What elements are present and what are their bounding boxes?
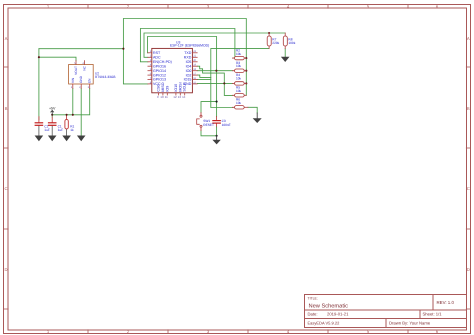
svg-text:C: C (4, 186, 7, 191)
svg-text:EN: EN (88, 78, 92, 83)
svg-text:GPIO14: GPIO14 (153, 69, 166, 73)
U3 left pin stubs (148, 53, 152, 84)
svg-text:1uF: 1uF (58, 128, 64, 132)
svg-text:ESP-12F (ESP8266MOD): ESP-12F (ESP8266MOD) (170, 44, 209, 48)
U2 top pin stubs (76, 61, 84, 65)
svg-text:MISO: MISO (161, 82, 165, 91)
U3 bottom pin stubs (159, 93, 185, 95)
svg-text:MOSI: MOSI (178, 82, 182, 91)
svg-text:13: 13 (178, 95, 182, 99)
resistor R6 (232, 98, 248, 109)
svg-text:A: A (5, 36, 8, 41)
svg-text:+5V: +5V (49, 106, 56, 110)
wire C1 bottom stem (51, 125, 53, 135)
svg-text:10k: 10k (236, 52, 242, 56)
svg-text:B: B (467, 106, 470, 111)
wire GND pin to R4 (197, 82, 233, 84)
svg-text:CS0: CS0 (157, 85, 161, 92)
wire R1 bottom stem (66, 129, 68, 136)
junction node +5V (51, 114, 53, 116)
frame ticks top (88, 5, 408, 9)
junction node 3.3V tee (122, 48, 124, 50)
junction node R1 top (66, 114, 68, 116)
svg-text:GND: GND (79, 75, 83, 83)
svg-text:NC: NC (82, 65, 86, 70)
ground under U2 GND (77, 136, 86, 142)
svg-text:220k: 220k (272, 41, 279, 45)
wire +5V rail (52, 88, 89, 114)
wire R7 bottom run (211, 49, 269, 108)
resistor R5 (232, 86, 246, 97)
U3 bottom pin numbers (157, 95, 186, 99)
wire IO15 stub (197, 79, 211, 81)
U2 pin numbers (71, 62, 90, 89)
svg-text:TXD: TXD (184, 51, 192, 55)
svg-text:GPIO12: GPIO12 (153, 73, 166, 77)
U3 left pin numbers (150, 50, 152, 84)
svg-text:IO0: IO0 (186, 69, 192, 73)
svg-text:B: B (5, 106, 8, 111)
wire VOUT to 3.3V (39, 57, 76, 61)
wire C1 top stub (51, 115, 53, 117)
frame ticks right (466, 67, 470, 309)
junction node R7 top (268, 32, 270, 34)
regulator U2 body (69, 65, 116, 85)
resistor R2 (232, 48, 246, 59)
wire wrap RST (148, 37, 217, 102)
svg-text:11: 11 (165, 95, 168, 99)
svg-text:A: A (467, 36, 470, 41)
junction node R2 rail (245, 57, 247, 59)
junction node R4 tap (223, 82, 225, 84)
power +5V (49, 106, 56, 114)
svg-text:14: 14 (182, 95, 186, 99)
wire wrap ADC (144, 33, 285, 57)
svg-text:GPIO16: GPIO16 (153, 64, 166, 68)
svg-text:RST: RST (153, 51, 161, 55)
svg-text:GPIO13: GPIO13 (153, 78, 166, 82)
junction node R3 tap (215, 70, 217, 72)
svg-text:10k: 10k (236, 101, 242, 105)
wire R8 to ground (284, 49, 286, 57)
svg-text:12: 12 (173, 95, 177, 99)
svg-text:EasyEDA V5.9.22: EasyEDA V5.9.22 (308, 321, 341, 326)
frame ticks left (4, 67, 9, 309)
resistor R1 (65, 119, 75, 131)
svg-text:IO9: IO9 (165, 86, 169, 92)
wire VIN drop (72, 88, 74, 114)
wire reset bottom (201, 131, 217, 136)
wire C2 bottom stem (38, 125, 40, 135)
junction node VIN (72, 114, 74, 116)
svg-text:C: C (467, 186, 470, 191)
wire IO4 staircase to R5 (197, 66, 233, 95)
capacitor C2 (35, 123, 50, 132)
svg-text:IO5: IO5 (186, 60, 192, 64)
svg-text:TITLE:: TITLE: (308, 297, 318, 301)
junction node R4 rail (245, 82, 247, 84)
svg-text:100k: 100k (288, 41, 295, 45)
wire C3 bottom (216, 123, 218, 127)
U3 right pin names (183, 51, 191, 86)
svg-text:Date:: Date: (308, 312, 318, 317)
svg-text:IO15: IO15 (184, 78, 192, 82)
wire VCC drop (123, 49, 147, 84)
svg-text:100nF: 100nF (222, 123, 231, 127)
svg-text:VOUT: VOUT (74, 66, 78, 75)
resistor R8 (283, 33, 295, 49)
svg-text:New Schematic: New Schematic (309, 302, 349, 309)
svg-text:EN(CH-PD): EN(CH-PD) (153, 60, 172, 64)
ground under R6 (253, 113, 262, 123)
resistor R4 (232, 73, 246, 85)
ground under R1 (62, 136, 71, 142)
svg-text:10k: 10k (236, 77, 242, 81)
wire C3 top (216, 102, 218, 117)
U3 bottom pin names (157, 82, 187, 92)
U2 bottom pin stubs (73, 84, 90, 88)
svg-text:VIN: VIN (71, 77, 75, 83)
svg-text:D: D (467, 267, 470, 272)
wire 3.3V horizontal from C2 to VCC node (39, 48, 124, 50)
wire U2 GND drop (80, 88, 82, 135)
wire 3.3V top rail (123, 19, 246, 96)
ground under C1 (48, 136, 57, 142)
title block (305, 294, 467, 327)
U3 right pin numbers (193, 50, 196, 84)
svg-text:10: 10 (160, 95, 164, 99)
wire R6 to ground (248, 107, 257, 113)
U3 left pin names (153, 51, 172, 86)
wire IO2 jog (197, 75, 211, 77)
wire R1 top stub (66, 115, 68, 120)
junction node R3 rail (245, 70, 247, 72)
wire C2 top stub (38, 117, 40, 123)
svg-text:IO4: IO4 (186, 64, 192, 68)
op U3 ESP-12F body (152, 40, 209, 93)
wire IO0 to R3 (197, 70, 233, 72)
resistor R3 (232, 61, 246, 73)
capacitor C3 (213, 119, 231, 127)
svg-text:SCLK: SCLK (183, 82, 187, 92)
svg-text:D: D (4, 267, 7, 272)
junction node reset top (216, 101, 218, 103)
frame row letters (4, 36, 469, 272)
capacitor C1 (49, 123, 64, 132)
svg-text:Sheet: 1/1: Sheet: 1/1 (423, 312, 443, 317)
svg-text:10k: 10k (236, 89, 242, 93)
junction node reset bottom (216, 135, 218, 137)
ground under R8 (281, 57, 290, 62)
svg-text:IO10: IO10 (174, 84, 178, 92)
svg-text:1k: 1k (70, 128, 74, 132)
junction node VOUT tee (38, 56, 40, 58)
svg-text:10k: 10k (236, 64, 242, 68)
svg-text:2019-01-21: 2019-01-21 (327, 312, 349, 317)
wire reset node horizontal (201, 102, 217, 113)
svg-text:Drawn By: Your Name: Drawn By: Your Name (389, 321, 431, 326)
svg-text:IO2: IO2 (186, 73, 192, 77)
svg-text:ADC: ADC (153, 56, 161, 60)
ground under C2 (35, 136, 44, 142)
wire C2 vertical (38, 49, 40, 120)
resistor R7 (267, 33, 279, 49)
U3 right pin stubs (192, 53, 197, 84)
svg-text:REV: 1.0: REV: 1.0 (437, 300, 455, 305)
wire wrap EN (140, 29, 235, 62)
switch SW1 (197, 113, 214, 131)
svg-text:RXD: RXD (184, 56, 192, 60)
svg-text:1uF: 1uF (44, 128, 50, 132)
U2 pin names (71, 65, 92, 83)
svg-text:RT9013-33GB: RT9013-33GB (95, 75, 116, 79)
ground under C3 (212, 136, 220, 145)
svg-text:RESET: RESET (203, 123, 214, 127)
frame ticks bottom (88, 330, 408, 334)
